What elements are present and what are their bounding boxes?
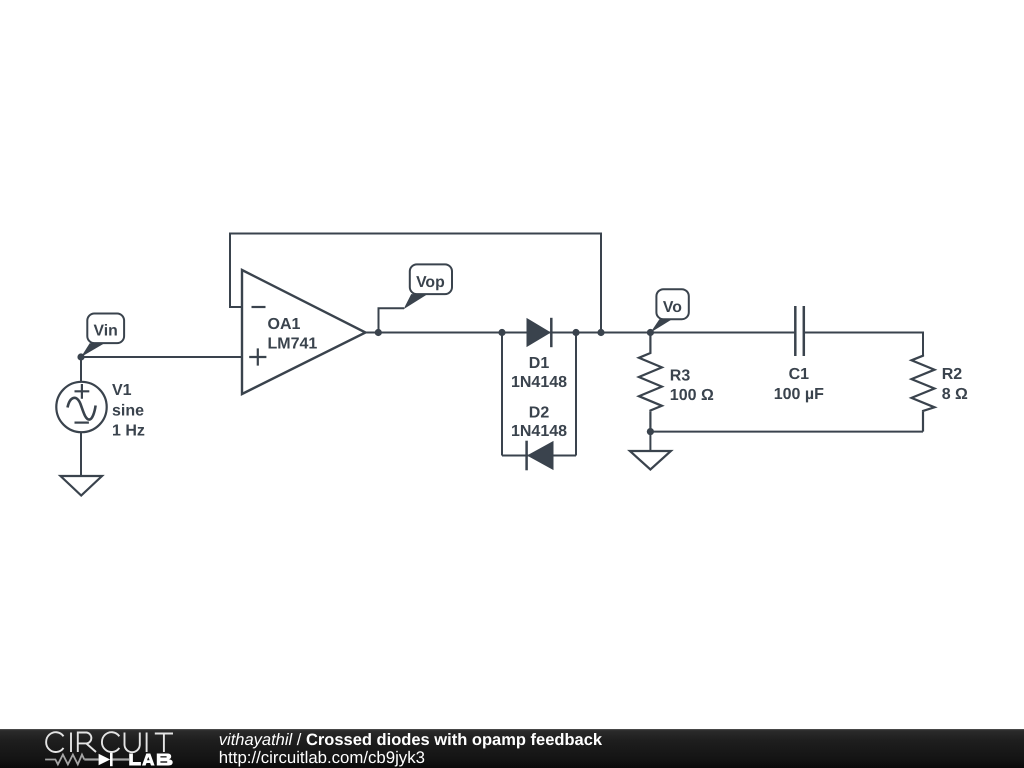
label R2 8 ohm xyxy=(942,366,968,403)
wire input Vin to op-amp non-inverting input xyxy=(81,356,242,358)
CircuitLab logo resistor-diode line xyxy=(45,753,129,766)
CircuitLab logo LAB wordmark xyxy=(129,754,173,766)
CircuitLab logo CIRCUIT wordmark xyxy=(46,732,173,752)
label D1 1N4148 xyxy=(511,355,567,391)
ground under V1 xyxy=(61,476,103,496)
wire capacitor to R2 top corner xyxy=(804,333,923,356)
diode D1 xyxy=(528,318,552,347)
label C1 100 uF xyxy=(774,366,824,403)
node feedback junction dot xyxy=(597,329,604,336)
svg-text:LM741: LM741 xyxy=(268,335,318,352)
svg-text:Vop: Vop xyxy=(416,274,445,291)
svg-text:R3: R3 xyxy=(670,367,691,384)
svg-text:1N4148: 1N4148 xyxy=(511,423,567,440)
label OA1 LM741 xyxy=(268,316,318,352)
svg-text:vithayathil / Crossed diodes w: vithayathil / Crossed diodes with opamp … xyxy=(219,731,603,749)
svg-text:D1: D1 xyxy=(529,355,550,372)
svg-text:8 Ω: 8 Ω xyxy=(942,386,968,403)
net label Vin xyxy=(81,314,124,358)
footer bar xyxy=(0,729,1024,768)
resistor R2 xyxy=(912,355,935,432)
svg-text:sine: sine xyxy=(112,403,144,420)
node Vo junction dot xyxy=(647,329,654,336)
wire diode branch right vertical xyxy=(575,333,577,456)
svg-text:Vo: Vo xyxy=(663,299,682,316)
wire V1 bottom lead xyxy=(80,432,82,476)
svg-text:OA1: OA1 xyxy=(268,316,301,333)
svg-text:C1: C1 xyxy=(789,366,810,383)
node op-amp output junction dot xyxy=(375,329,382,336)
node diode branch right junction dot xyxy=(572,329,579,336)
wire V1 top lead xyxy=(80,357,82,383)
svg-text:D2: D2 xyxy=(529,404,550,421)
svg-text:1N4148: 1N4148 xyxy=(511,374,567,391)
svg-text:1 Hz: 1 Hz xyxy=(112,423,145,440)
label V1 sine 1 Hz xyxy=(112,382,145,440)
svg-text:Vin: Vin xyxy=(94,323,118,340)
wire ground stub under R3 xyxy=(649,432,651,451)
svg-text:R2: R2 xyxy=(942,366,963,383)
svg-text:100 Ω: 100 Ω xyxy=(670,387,714,404)
wire bottom rail R3 to R2 xyxy=(650,431,923,433)
wire Vop label stub xyxy=(379,308,405,332)
resistor R3 xyxy=(639,333,662,432)
voltage source V1 xyxy=(56,382,106,432)
net label Vo xyxy=(650,289,688,332)
wire diode branch bottom xyxy=(502,455,576,457)
svg-text:http://circuitlab.com/cb9jyk3: http://circuitlab.com/cb9jyk3 xyxy=(219,748,425,767)
node R3 bottom junction dot xyxy=(647,428,654,435)
capacitor C1 xyxy=(795,306,804,356)
svg-text:100 µF: 100 µF xyxy=(774,386,824,403)
svg-text:V1: V1 xyxy=(112,382,132,399)
node diode branch left junction dot xyxy=(498,329,505,336)
node Vin junction dot xyxy=(77,353,84,360)
op-amp OA1 xyxy=(242,270,366,394)
label R3 100 ohm xyxy=(670,367,714,404)
wire feedback loop from inverting input to output rail xyxy=(230,234,601,333)
label D2 1N4148 xyxy=(511,404,567,440)
wire op-amp output rail to capacitor xyxy=(366,332,796,334)
wire diode branch left vertical xyxy=(501,333,503,456)
ground under R3 xyxy=(630,451,671,470)
diode D2 xyxy=(527,441,553,471)
net label Vop xyxy=(404,264,453,309)
